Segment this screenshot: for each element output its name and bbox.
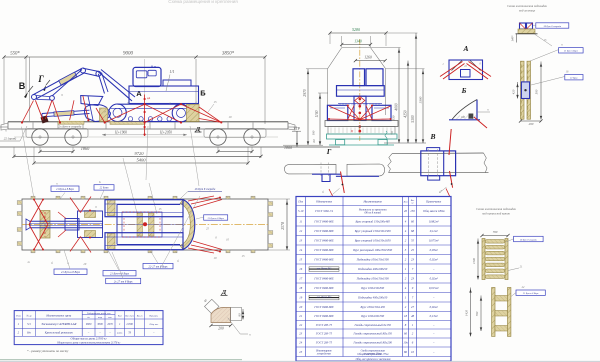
svg-text:Примеч.: Примеч. [148,315,158,318]
svg-text:21 Бут-н 8 Верх: 21 Бут-н 8 Верх [61,271,81,274]
svg-text:1860: 1860 [81,146,90,151]
svg-text:2х 27 ит 8 Верх: 2х 27 ит 8 Верх [114,280,133,283]
svg-text:4250: 4250 [404,110,408,117]
svg-text:2570: 2570 [281,222,285,230]
svg-text:Г: Г [326,147,332,156]
svg-text:Брус 100х150х300: Брус 100х150х300 [360,286,384,290]
svg-text:700: 700 [493,230,498,234]
svg-text:9000: 9000 [123,52,134,57]
svg-text:ГОСТ 3282-74: ГОСТ 3282-74 [314,209,333,213]
svg-text:Обозначение: Обозначение [316,199,333,203]
svg-text:150: 150 [410,209,415,213]
svg-text:под гусеницу: под гусеницу [519,9,536,13]
svg-text:выс: выс [108,317,112,319]
svg-text:Общ. вес крепежа с настилом: Общ. вес крепежа с настилом [356,358,391,361]
svg-text:22 Брус: 22 Брус [570,77,579,80]
svg-text:26 Бут 8 спереди: 26 Бут 8 спереди [544,25,562,28]
svg-text:Схема изготовления подкладки: Схема изготовления подкладки [507,4,548,8]
svg-text:Брус 100х100х700: Брус 100х100х700 [360,314,384,318]
svg-text:1420: 1420 [465,310,469,317]
svg-text:дл.: дл. [87,316,90,319]
svg-text:ГОСТ 8486-86Е: ГОСТ 8486-86Е [313,238,334,242]
svg-text:Общая масса груза с крепежными: Общая масса груза с крепежными реквизита… [57,341,120,344]
svg-text:5-10: 5-10 [298,209,304,213]
svg-text:под натяжной каток: под натяжной каток [482,211,510,216]
svg-text:ГОСТ 283-75: ГОСТ 283-75 [315,323,333,327]
svg-text:компл.: компл. [117,333,123,335]
svg-text:9000: 9000 [86,323,92,326]
svg-text:Подкладка 100х150х1500: Подкладка 100х150х1500 [356,276,390,280]
svg-text:Вес: Вес [411,200,414,202]
svg-text:Габаритные разм. мм: Габаритные разм. мм [86,312,111,315]
svg-text:кг: кг [412,203,414,205]
svg-text:Б: Б [200,89,206,98]
svg-text:1260: 1260 [364,55,372,59]
svg-text:ГОСТ 8486-86Е: ГОСТ 8486-86Е [313,314,334,318]
svg-text:В: В [19,81,26,91]
svg-text:4000: 4000 [395,103,399,110]
svg-text:10: 10 [229,115,233,119]
svg-text:10: 10 [214,256,218,260]
svg-text:21 Бут-в Верх: 21 Бут-в Верх [564,51,578,53]
svg-text:Наименование: Наименование [362,199,382,203]
svg-text:86: 86 [404,350,408,354]
svg-text:Наименование груза: Наименование груза [45,314,71,318]
svg-text:21 Бут-н 8 Верх: 21 Бут-н 8 Верх [110,273,130,276]
svg-text:5280: 5280 [352,27,360,32]
svg-text:Общ масса 180м: Общ масса 180м [423,209,444,213]
svg-text:Поз: Поз [297,199,303,203]
svg-text:90: 90 [238,313,242,317]
svg-text:ГОСТ 8486-86Е: ГОСТ 8486-86Е [313,286,334,290]
svg-text:10: 10 [411,350,415,354]
svg-text:3850*: 3850* [222,52,235,57]
svg-text:60: 60 [411,219,415,223]
svg-text:Брус упорный 150х150х1500: Брус упорный 150х150х1500 [354,228,391,233]
svg-text:140*: 140* [511,35,515,42]
svg-text:8/н: 8/н [27,331,31,335]
svg-text:1100: 1100 [472,258,476,264]
svg-text:48: 48 [411,314,415,318]
svg-text:26 Бут 8 спереди: 26 Бут 8 спереди [195,188,216,191]
svg-text:200: 200 [218,327,224,331]
svg-text:ГОСТ 8486-86Е: ГОСТ 8486-86Е [313,276,334,280]
svg-text:22-27 ит 8 Верх: 22-27 ит 8 Верх [149,265,169,268]
svg-text:Подкладка 400х200х50: Подкладка 400х200х50 [357,295,388,299]
svg-text:Рюм: Рюм [15,315,21,318]
svg-text:20: 20 [404,209,408,213]
svg-text:Примечание: Примечание [425,199,442,203]
svg-text:Б: Б [461,86,467,95]
svg-text:2970: 2970 [107,323,113,326]
svg-text:ГОСТ 8486-86Е: ГОСТ 8486-86Е [313,248,334,252]
svg-text:цА: цА [147,96,151,100]
svg-text:А: А [136,89,142,98]
svg-text:23: 23 [411,276,415,280]
svg-text:Брус упорный 100х150х1650: Брус упорный 100х150х1650 [354,237,391,242]
svg-text:Ø6 по 8 нитей: Ø6 по 8 нитей [363,212,381,215]
svg-text:1100: 1100 [315,110,319,117]
svg-text:22 болт: 22 болт [100,187,109,190]
svg-text:Общая масса груза 21500 кг: Общая масса груза 21500 кг [71,337,108,341]
svg-text:60: 60 [312,139,316,143]
svg-text:* - размер уточнить по месту: * - размер уточнить по месту [27,349,69,353]
svg-text:ГОСТ 8486-86Е: ГОСТ 8486-86Е [313,229,334,233]
svg-text:Кол: Кол [403,200,408,203]
svg-text:26 Бут 8 спереди: 26 Бут 8 спереди [520,238,538,241]
svg-text:Экскаватор CATERPILLAR: Экскаватор CATERPILLAR [41,322,76,326]
svg-text:Брус 100х150х1430: Брус 100х150х1430 [360,305,386,309]
svg-text:550*: 550* [10,52,20,57]
svg-text:ГОСТ 8486-86Е: ГОСТ 8486-86Е [313,257,334,261]
svg-text:21500: 21500 [126,323,133,326]
svg-text:УГР: УГР [293,127,300,131]
svg-text:А: А [462,44,468,53]
svg-text:ГОСТ 283-75: ГОСТ 283-75 [315,341,333,345]
svg-text:3000: 3000 [97,323,103,326]
svg-text:Кол: Кол [117,315,122,318]
svg-text:Подкладка 100х150х1500: Подкладка 100х150х1500 [356,257,390,261]
svg-text:68: 68 [411,229,415,233]
svg-text:ГОСТ 283-75: ГОСТ 283-75 [315,332,333,336]
svg-text:55: 55 [411,238,415,242]
svg-text:2х Бут-н спереди: 2х Бут-н спереди [59,125,82,129]
svg-text:Ц+1960: Ц+1960 [114,131,127,135]
svg-text:В: В [429,132,435,141]
svg-text:Схема изготовления подкладки: Схема изготовления подкладки [476,207,517,211]
svg-text:Общий вес крепления 175кг: Общий вес крепления 175кг [357,353,388,356]
svg-text:Вес 1шт: Вес 1шт [125,316,134,318]
svg-text:22 (щит): 22 (щит) [4,137,16,141]
svg-text:Гвоздь строительный К6х150: Гвоздь строительный К6х150 [353,331,393,336]
svg-text:18: 18 [404,314,408,318]
svg-text:420: 420 [512,89,516,94]
svg-text:Гвоздь строительный 6х150: Гвоздь строительный 6х150 [354,322,392,327]
svg-text:5300: 5300 [419,96,423,103]
svg-text:зав. Черт.№5: зав. Черт.№5 [316,267,332,270]
svg-text:Крепежный реквизит: Крепежный реквизит [44,330,74,335]
svg-text:5400: 5400 [137,158,147,163]
svg-text:700: 700 [475,311,479,316]
svg-text:1860: 1860 [284,145,292,150]
svg-text:№ гр: № гр [25,315,32,318]
svg-text:Вес,т: Вес,т [137,316,143,318]
svg-text:25: 25 [411,248,415,252]
svg-text:1340: 1340 [354,40,362,44]
svg-text:21 Бут-н 8 Верх: 21 Бут-н 8 Верх [523,293,539,295]
svg-text:Общ. вес: Общ. вес [149,323,158,326]
svg-text:Ь: Ь [98,181,101,184]
svg-text:550: 550 [392,115,396,120]
svg-text:Брус упорный 150х200х485: Брус упорный 150х200х485 [354,218,390,223]
svg-text:Гвоздь строительный К6х200: Гвоздь строительный К6х200 [353,340,393,345]
svg-text:15: 15 [214,100,218,104]
svg-text:2970: 2970 [303,89,307,96]
svg-text:10: 10 [83,262,87,266]
svg-text:Ц+2050: Ц+2050 [159,131,172,135]
svg-text:15: 15 [242,254,246,258]
svg-text:21 Бут-н 8 Верх: 21 Бут-н 8 Верх [56,188,74,191]
svg-text:21 Бут-н 8 Верх: 21 Бут-н 8 Верх [208,217,225,220]
svg-text:9720: 9720 [135,151,145,156]
svg-text:зав. Черт.№5: зав. Черт.№5 [316,295,332,298]
svg-text:190: 190 [312,130,316,135]
svg-text:1/1: 1/1 [169,69,174,74]
svg-text:10х: 10х [403,341,408,345]
svg-text:66: 66 [404,332,408,336]
svg-text:23: 23 [411,257,415,261]
svg-text:27: 27 [411,305,415,309]
svg-text:500: 500 [535,89,539,94]
svg-text:5300: 5300 [411,115,415,122]
svg-text:Схема размещения и крепления: Схема размещения и крепления [168,0,238,4]
svg-text:Брус распорный 100х150х5300: Брус распорный 100х150х5300 [352,247,392,252]
svg-text:устройство: устройство [316,352,332,355]
svg-text:5/1: 5/1 [27,322,31,326]
svg-text:Г: Г [37,74,44,84]
svg-text:ГОСТ 8486-86Е: ГОСТ 8486-86Е [313,305,334,309]
svg-text:Подкладка 400х200х50: Подкладка 400х200х50 [357,267,388,271]
svg-text:ГОСТ 8486-86Е: ГОСТ 8486-86Е [313,219,334,223]
svg-text:200: 200 [529,122,534,126]
